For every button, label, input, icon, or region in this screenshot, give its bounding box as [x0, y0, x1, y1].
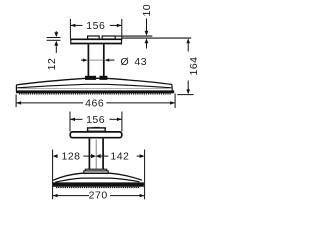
head front: inner shell line	[55, 178, 139, 182]
head upper shell inner line	[17, 84, 171, 88]
svg-text:156: 156	[86, 20, 105, 32]
head right face	[171, 84, 173, 91]
dim 156 bottom: dimension line	[70, 118, 83, 120]
dim Ø43: right arrow	[105, 59, 110, 62]
head front: spray plate	[53, 182, 144, 186]
dim 164: lower line + arrowhead	[187, 81, 189, 90]
dim 156 bottom: left extension line	[69, 112, 71, 132]
dim 156 bottom: right extension line	[121, 112, 123, 132]
dim 164: upper arrowhead	[186, 38, 190, 43]
pipe (bottom view)	[88, 139, 90, 170]
dim 10: upper line + down arrowhead	[146, 19, 148, 33]
dim 10: lower up arrowhead + line	[145, 38, 149, 43]
dim 12: upper arrow	[55, 31, 57, 33]
flange screw bump (bottom view)	[88, 128, 106, 131]
dim 128: line + label	[83, 155, 91, 157]
dim 128: arrowhead left	[53, 154, 58, 158]
dim 270: arrowheads	[53, 194, 58, 197]
pipe foot (bottom view)	[85, 169, 107, 171]
pipe foot (top view)	[85, 76, 96, 80]
flange plate (bottom view)	[70, 132, 122, 138]
dim 156 top: dimension line	[70, 24, 82, 26]
svg-text:128: 128	[61, 151, 80, 163]
svg-text:156: 156	[86, 114, 105, 126]
shower head (front view) top outline	[53, 173, 142, 180]
flange screw bump right	[102, 36, 115, 39]
dim 466: arrowheads	[16, 101, 21, 104]
head seam line	[18, 87, 171, 89]
dim 156 top: right extension line	[121, 19, 123, 41]
dim 156 top: left extension line	[69, 19, 71, 39]
pipe centerline	[95, 140, 97, 169]
dim 164: bottom reference line	[177, 94, 193, 96]
dim 466: right extension line	[174, 94, 176, 109]
shower head (side view)	[16, 78, 172, 85]
nozzles	[19, 93, 171, 95]
dim Ø43: left arrow	[81, 59, 85, 61]
dim 142: arrowhead at centerline	[96, 154, 101, 158]
svg-text:142: 142	[110, 151, 129, 163]
head left face	[15, 85, 17, 91]
dim 270: dimension line	[53, 195, 89, 197]
spray plate	[16, 90, 174, 93]
ceiling line	[116, 35, 153, 37]
flange screw bump left	[88, 36, 100, 39]
svg-text:466: 466	[85, 97, 104, 109]
dim 466: left extension line	[15, 95, 17, 108]
pipe (top view)	[87, 44, 89, 76]
svg-text:10: 10	[141, 4, 153, 17]
dim Ø43: dimension line through pipe	[89, 59, 103, 61]
svg-text:270: 270	[89, 190, 108, 202]
svg-text:12: 12	[46, 58, 58, 71]
dim 128/142: left extension line	[52, 150, 54, 200]
dim 142: line + arrowhead right	[137, 155, 140, 157]
dim 128/142: right extension line	[144, 150, 146, 200]
flange plate	[71, 39, 122, 43]
head front: nozzles	[56, 186, 140, 188]
svg-text:164: 164	[188, 56, 200, 75]
dim 156 top: right arrowhead	[117, 24, 122, 27]
dim 466: dimension line	[16, 102, 83, 104]
dim 156 top: left arrowhead	[70, 24, 75, 27]
dim 12: tick lines	[47, 37, 61, 39]
dim 156 bottom: arrowheads	[70, 118, 75, 121]
flange top reference line (to 10-dim and 164-dim)	[122, 37, 191, 39]
svg-text:Ø43: Ø43	[121, 56, 148, 68]
dim 12: lower arrow	[54, 41, 58, 46]
